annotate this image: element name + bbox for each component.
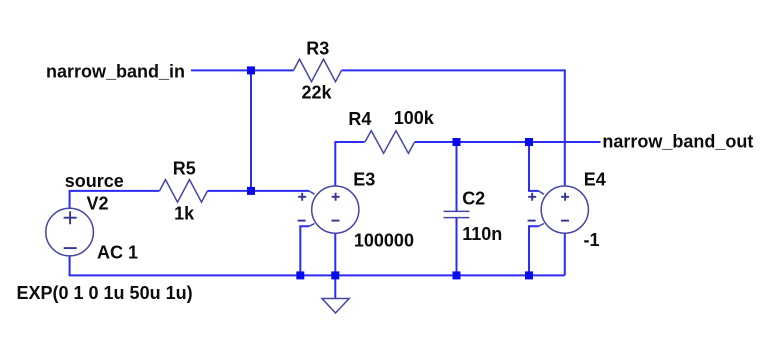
controlled source E3 circle <box>312 186 359 233</box>
V2 plus sign <box>64 211 77 224</box>
E4 control minus <box>528 220 536 222</box>
E4 inner minus <box>561 220 569 222</box>
wire R4 right to narrow_band_out <box>415 141 601 143</box>
voltage source V2 circle <box>46 208 94 256</box>
svg-text:100k: 100k <box>394 108 435 128</box>
wire E4 plus-control from out-node down then right <box>529 142 539 191</box>
E3 inner minus <box>332 220 340 222</box>
svg-text:narrow_band_out: narrow_band_out <box>602 132 753 152</box>
E4 inner plus <box>561 193 569 201</box>
wire C2 bottom <box>456 218 458 276</box>
wire R5 right to E3 control <box>208 190 310 192</box>
svg-text:AC 1: AC 1 <box>97 243 138 263</box>
wire E3 bottom pin <box>334 233 336 275</box>
svg-text:R4: R4 <box>348 109 371 129</box>
wire E4 minus-control horizontal and down to rail <box>529 226 539 275</box>
node junction squares <box>247 66 533 279</box>
wire source row: V2 top pin up and right to R5 <box>70 191 160 209</box>
svg-text:100000: 100000 <box>354 231 414 251</box>
svg-text:R3: R3 <box>306 38 329 58</box>
node E3 bottom rail junction <box>331 271 339 279</box>
controlled source E4 circle <box>541 186 588 233</box>
E4 control stub diagonals <box>539 191 545 194</box>
wire narrow_band_in to R3 (top row) <box>191 69 294 71</box>
node E3 minus control rail junction <box>296 271 304 279</box>
wire E4 bottom pin <box>564 233 566 275</box>
svg-text:EXP(0 1 0 1u 50u 1u): EXP(0 1 0 1u 50u 1u) <box>17 283 193 303</box>
svg-text:narrow_band_in: narrow_band_in <box>46 61 185 81</box>
svg-text:R5: R5 <box>173 159 196 179</box>
node C2 bottom rail junction <box>453 271 461 279</box>
ground <box>322 299 349 314</box>
E3 control plus <box>298 193 306 201</box>
svg-text:C2: C2 <box>462 189 485 209</box>
svg-text:E3: E3 <box>353 170 375 190</box>
wire V2 bottom pin and ground rail <box>70 256 565 276</box>
svg-text:E4: E4 <box>584 170 606 190</box>
wire ground stem <box>334 275 336 298</box>
wire E3 minus-control horizontal and down to rail <box>300 226 309 275</box>
E3 control minus <box>298 220 306 222</box>
svg-text:1k: 1k <box>174 204 195 224</box>
node R5/E3 control junction <box>247 187 255 195</box>
capacitor C2 <box>444 211 470 217</box>
wire C2 top <box>456 142 458 211</box>
wire R3 right to top-right corner, down to E4 output <box>342 70 565 186</box>
svg-text:-1: -1 <box>584 230 600 250</box>
svg-text:22k: 22k <box>302 83 333 103</box>
V2 minus sign <box>64 247 77 249</box>
resistor R5 <box>160 180 208 203</box>
wire vertical from in-junction down to R5 row <box>250 70 252 190</box>
node narrow_band_in junction <box>247 66 255 74</box>
resistor R4 <box>365 131 415 154</box>
svg-text:source: source <box>65 171 124 191</box>
node E4 control top junction <box>525 138 533 146</box>
resistor R3 <box>294 59 342 82</box>
E4 control plus <box>528 193 536 201</box>
svg-text:110n: 110n <box>462 224 502 244</box>
E3 inner plus <box>332 193 340 201</box>
node E4 minus control rail junction <box>525 271 533 279</box>
wire E3 top pin and row B left segment to R4 <box>335 142 364 186</box>
node C2 top junction <box>453 138 461 146</box>
svg-text:V2: V2 <box>87 193 109 213</box>
E3 control stub diagonals <box>309 191 315 194</box>
